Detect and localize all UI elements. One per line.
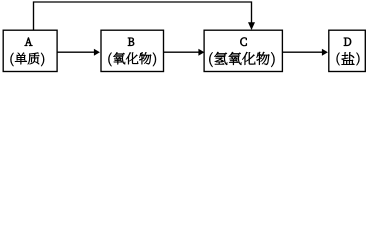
arrow C to D <box>282 49 328 56</box>
arrow A to B <box>57 49 100 56</box>
box D <box>329 30 366 71</box>
label B: letter B <box>128 38 134 46</box>
label C: (氢氧化物) <box>209 52 274 67</box>
label B: (氧化物) <box>108 52 155 66</box>
box B <box>101 30 164 71</box>
label D: (盐) <box>337 52 360 65</box>
wire: feedback connector from top of box A up, across, and down into top of box C <box>34 2 256 30</box>
label C: letter C <box>240 38 246 46</box>
label A: letter A <box>25 38 33 46</box>
arrow B to C <box>164 49 205 56</box>
box C <box>204 30 282 71</box>
box A <box>3 30 57 71</box>
label A: (单质) <box>11 53 45 67</box>
label D: letter D <box>344 38 351 46</box>
